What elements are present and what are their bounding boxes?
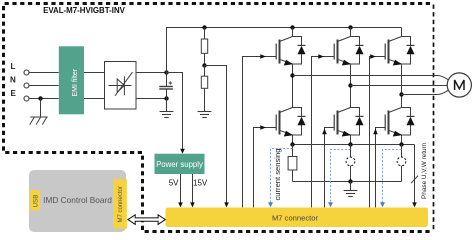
arrow 5V xyxy=(178,202,183,207)
terminal N xyxy=(24,83,29,88)
current sense signal leg2 (blue dashed) xyxy=(331,150,351,203)
node divider mid xyxy=(202,63,206,67)
node rail leg1 xyxy=(290,25,294,29)
svg-text:EMI filter: EMI filter xyxy=(72,68,79,96)
motor M xyxy=(447,73,471,97)
wire rectifier to DC link (bottom) xyxy=(136,98,167,100)
ground below capacitor xyxy=(160,99,174,118)
IGBT Q3 (top) with diode D3 xyxy=(334,28,363,86)
node emitter leg1 xyxy=(290,142,294,146)
IGBT Q4 (bottom) with diode D4 xyxy=(334,86,363,145)
IGBT Q6 (bottom) with diode D6 xyxy=(385,95,414,145)
node phase V xyxy=(348,83,352,87)
USB connector tab xyxy=(30,190,40,210)
wire sensor leg2 to bus xyxy=(350,166,352,182)
phase return wire to M7 connector xyxy=(414,145,416,204)
DC+ rail wire xyxy=(167,28,402,73)
double arrow IMD board to M7 connector xyxy=(128,215,165,225)
wire 5V to M7 connector xyxy=(180,174,182,203)
wire phase W to motor xyxy=(402,90,449,94)
bus slash mark xyxy=(411,176,418,184)
svg-text:15V: 15V xyxy=(193,179,208,188)
node rail leg2 xyxy=(348,25,352,29)
wire rectifier to DC link (top) xyxy=(136,72,167,74)
gate arrow lower leg3 (up) xyxy=(373,129,378,135)
power supply block xyxy=(155,154,205,174)
DC link capacitor C1 xyxy=(159,73,173,99)
chassis ground xyxy=(30,99,48,125)
node DC+ xyxy=(164,70,168,74)
blue arrow leg3 xyxy=(380,202,385,207)
arrow phase return xyxy=(412,202,417,207)
gate wire upper leg1 xyxy=(243,57,277,208)
IGBT Q1 (top) with diode D1 xyxy=(276,28,305,76)
gate arrow upper leg1 xyxy=(260,54,266,59)
ground below divider xyxy=(198,112,212,118)
wire 15V to M7 connector xyxy=(192,174,194,203)
EMI filter block xyxy=(59,46,84,114)
resistor R2 (divider bottom) xyxy=(201,66,207,112)
svg-text:Power supply: Power supply xyxy=(156,160,203,169)
gate wire upper leg2 xyxy=(312,57,335,208)
node phase U xyxy=(290,73,294,77)
bottom bus xyxy=(293,181,402,183)
gate wire lower leg1 xyxy=(254,128,277,208)
arrow 15V xyxy=(190,202,195,207)
svg-text:E: E xyxy=(11,89,17,98)
shunt resistor leg1 xyxy=(288,145,297,182)
arrow sense to connector xyxy=(224,202,229,207)
gate wire lower leg2 xyxy=(325,128,335,208)
gate arrow upper leg2 xyxy=(318,54,324,59)
svg-text:M7 connector: M7 connector xyxy=(272,213,318,222)
node phase W xyxy=(399,92,403,96)
svg-text:current sensing: current sensing xyxy=(273,149,282,201)
gate wire lower leg3 xyxy=(376,128,386,208)
svg-text:IMD Control Board: IMD Control Board xyxy=(43,195,112,205)
gate arrow lower leg1 xyxy=(260,125,266,130)
IGBT Q5 (top) with diode D5 xyxy=(385,28,414,95)
emitter bus xyxy=(293,144,415,146)
wire EMI filter to rectifier (top) xyxy=(84,72,104,74)
terminal L xyxy=(24,70,29,75)
svg-text:Phase U,V,W return: Phase U,V,W return xyxy=(421,142,428,199)
wire leg2 to sensor xyxy=(350,145,352,158)
node DC- xyxy=(164,96,168,100)
resistor R1 (divider top) xyxy=(201,28,207,66)
wire DC+ tap to power supply xyxy=(167,73,183,151)
gate wire upper leg3 xyxy=(370,57,386,208)
current sensor leg3 (optional, dashed) xyxy=(397,157,406,166)
wire leg3 to sensor xyxy=(401,145,403,158)
node emitter leg3 xyxy=(399,142,403,146)
wire sensor leg3 to bus xyxy=(401,166,403,182)
gate arrow lower leg2 (up) xyxy=(322,129,327,135)
wire E to EMI filter xyxy=(29,98,59,100)
wire phase U to motor xyxy=(293,76,449,80)
IGBT Q2 (bottom) with diode D2 xyxy=(276,76,305,145)
M7 connector tab on IMD board xyxy=(113,179,127,228)
node rail divider tap xyxy=(202,25,206,29)
wire DC link voltage sense to M7 connector xyxy=(205,66,227,204)
M7 connector bar xyxy=(166,208,429,228)
wire L to EMI filter xyxy=(29,72,59,74)
IMD Control Board xyxy=(29,170,126,232)
wire EMI filter to rectifier (bottom) xyxy=(84,98,104,100)
svg-text:N: N xyxy=(10,76,16,85)
svg-text:EVAL-M7-HVIGBT-INV: EVAL-M7-HVIGBT-INV xyxy=(43,6,126,15)
ground below bus xyxy=(344,182,358,197)
node emitter leg2 xyxy=(348,142,352,146)
node on E wire xyxy=(38,96,42,100)
board outline right edge (thin dashed) xyxy=(433,5,435,231)
bridge rectifier xyxy=(105,62,137,110)
wire N to EMI filter xyxy=(29,85,59,87)
terminal E xyxy=(24,96,29,101)
svg-text:L: L xyxy=(11,62,16,71)
svg-text:5V: 5V xyxy=(169,179,179,188)
arrow into power supply xyxy=(180,149,185,154)
blue arrow leg2 xyxy=(328,202,333,207)
wire phase V to motor xyxy=(351,85,448,87)
node bottom bus center xyxy=(348,179,352,183)
svg-text:M7 connector: M7 connector xyxy=(118,186,124,222)
gate arrow upper leg3 xyxy=(370,54,376,59)
svg-text:USB: USB xyxy=(32,195,39,208)
current sensor leg2 (optional, dashed) xyxy=(346,157,355,166)
blue arrow leg1 xyxy=(268,202,273,207)
current sense signal leg3 (blue dashed) xyxy=(383,150,402,203)
current sense signal leg1 (blue dashed) xyxy=(271,149,293,203)
